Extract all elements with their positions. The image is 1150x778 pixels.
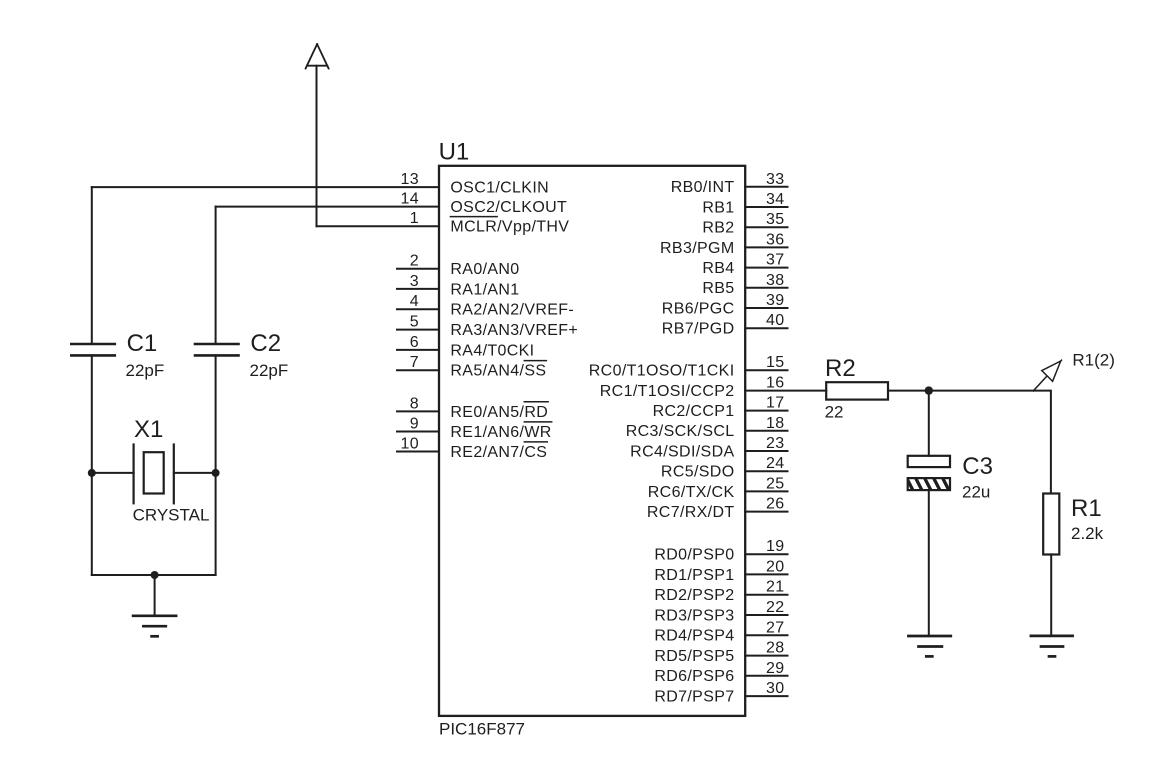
resistor R2: [826, 382, 888, 399]
svg-text:RA2/AN2/VREF-: RA2/AN2/VREF-: [450, 302, 574, 319]
wire: pin 33 stub: [745, 186, 787, 188]
pin name RD6/PSP6: [654, 668, 734, 685]
pin number 38: [766, 272, 785, 289]
wire: pin 23 stub: [745, 450, 787, 452]
svg-text:C3: C3: [962, 453, 993, 480]
pin number 16: [766, 374, 785, 391]
C1 reference label: [127, 330, 158, 357]
svg-text:7: 7: [410, 354, 419, 371]
pin name RB7/PGD: [662, 321, 735, 338]
pin name RA1/AN1: [450, 281, 519, 298]
svg-text:9: 9: [410, 416, 419, 433]
wire: pin 38 stub: [745, 287, 787, 289]
wire: pin 39 stub: [745, 307, 787, 309]
pin name RB0/INT: [671, 179, 735, 196]
wire: crystal left lead: [92, 472, 134, 474]
pin number 25: [766, 475, 785, 492]
pin number 26: [766, 496, 785, 513]
pin number 23: [766, 435, 785, 452]
svg-text:17: 17: [766, 395, 785, 412]
svg-text:OSC2/CLKOUT: OSC2/CLKOUT: [450, 199, 567, 216]
overline over WR of pin 9: [524, 421, 551, 423]
svg-text:RD7/PSP7: RD7/PSP7: [654, 689, 734, 706]
svg-text:4: 4: [410, 293, 419, 310]
pin number 40: [766, 312, 785, 329]
pin name RD2/PSP2: [654, 587, 734, 604]
svg-text:25: 25: [766, 475, 785, 492]
pin number 15: [766, 354, 785, 371]
wire: pin 36 stub: [745, 246, 787, 248]
wire: pin 20 stub: [745, 573, 787, 575]
pin name RA3/AN3/VREF+: [450, 322, 578, 339]
wire: pin 40 stub: [745, 327, 787, 329]
svg-text:RB1: RB1: [702, 199, 734, 216]
wire: pin 2 stub: [397, 268, 439, 270]
wire: C1 lower lead down to crystal loop: [91, 355, 93, 575]
pin number 33: [766, 171, 785, 188]
svg-text:35: 35: [766, 211, 785, 228]
wire: pin 35 stub: [745, 226, 787, 228]
svg-text:26: 26: [766, 496, 785, 513]
svg-text:33: 33: [766, 171, 785, 188]
pin number 17: [766, 395, 785, 412]
svg-text:1: 1: [410, 210, 419, 227]
pin name RA5/AN4/SS: [450, 363, 546, 380]
pin number 37: [766, 252, 785, 269]
node dot: C2 / crystal junction: [212, 469, 220, 477]
node dot: R2 / C3 / R1 junction: [925, 386, 933, 394]
svg-text:PIC16F877: PIC16F877: [439, 720, 525, 739]
capacitor C1 plates: [71, 344, 115, 355]
node label R1(2): [1072, 351, 1115, 370]
pin number 36: [766, 231, 785, 248]
R1 reference label: [1071, 495, 1102, 522]
svg-text:U1: U1: [439, 139, 470, 166]
pin name RD3/PSP3: [654, 607, 734, 624]
pin name RC7/RX/DT: [647, 504, 735, 521]
svg-text:RC0/T1OSO/T1CKI: RC0/T1OSO/T1CKI: [589, 363, 735, 380]
C3 reference label: [962, 453, 993, 480]
ground: R1: [1031, 636, 1073, 657]
pin name RD5/PSP5: [654, 648, 734, 665]
pin name RC2/CCP1: [653, 403, 735, 420]
wire: pin 9 stub: [397, 431, 439, 433]
svg-text:22pF: 22pF: [126, 361, 165, 380]
wire: ground stem of oscillator: [154, 575, 156, 616]
C1 value 22pF: [126, 361, 165, 380]
pin name RB4: [702, 260, 734, 277]
svg-text:RE0/AN5/RD: RE0/AN5/RD: [450, 404, 548, 421]
wire: C2 lower lead down to crystal loop: [215, 355, 217, 575]
svg-text:2: 2: [410, 253, 419, 270]
pin name RA4/T0CKI: [450, 342, 534, 359]
X1 value CRYSTAL: [133, 506, 210, 525]
svg-text:RA4/T0CKI: RA4/T0CKI: [450, 342, 534, 359]
svg-text:21: 21: [766, 579, 785, 596]
svg-text:RC3/SCK/SCL: RC3/SCK/SCL: [626, 423, 735, 440]
svg-text:18: 18: [766, 415, 785, 432]
pin number 13: [401, 171, 420, 188]
X1 reference label: [134, 416, 163, 443]
svg-text:RB2: RB2: [702, 220, 734, 237]
svg-text:RB5: RB5: [702, 280, 734, 297]
pin name RC1/T1OSI/CCP2: [600, 383, 735, 400]
pin name RC5/SDO: [661, 464, 735, 481]
wire: pin 5 stub: [397, 329, 439, 331]
pin number 7: [410, 354, 419, 371]
svg-text:X1: X1: [134, 416, 163, 443]
svg-text:RD2/PSP2: RD2/PSP2: [654, 587, 734, 604]
svg-text:34: 34: [766, 191, 785, 208]
svg-text:RE1/AN6/WR: RE1/AN6/WR: [450, 424, 551, 441]
capacitor C3 (electrolytic): [907, 456, 951, 491]
svg-text:RC5/SDO: RC5/SDO: [661, 464, 735, 481]
wire: C1 upper lead: [91, 187, 93, 344]
svg-text:2.2k: 2.2k: [1071, 524, 1104, 543]
pin name RD7/PSP7: [654, 689, 734, 706]
svg-text:R1(2): R1(2): [1072, 351, 1115, 370]
svg-text:OSC1/CLKIN: OSC1/CLKIN: [450, 180, 549, 197]
pin number 10: [401, 436, 420, 453]
svg-text:MCLR/Vpp/THV: MCLR/Vpp/THV: [450, 219, 569, 236]
svg-text:29: 29: [766, 660, 785, 677]
svg-text:RD6/PSP6: RD6/PSP6: [654, 668, 734, 685]
wire: pin 16 to R2: [745, 390, 826, 392]
svg-text:24: 24: [766, 455, 785, 472]
pin name RB5: [702, 280, 734, 297]
C2 value 22pF: [250, 361, 289, 380]
pin name RB2: [702, 220, 734, 237]
svg-text:RC4/SDI/SDA: RC4/SDI/SDA: [630, 443, 734, 460]
svg-text:22: 22: [766, 599, 785, 616]
svg-text:38: 38: [766, 272, 785, 289]
pin number 39: [766, 292, 785, 309]
pin name RA0/AN0: [450, 261, 519, 278]
svg-text:C1: C1: [127, 330, 158, 357]
svg-text:3: 3: [410, 273, 419, 290]
overline over CS of pin 10: [524, 441, 547, 443]
R2 reference label: [825, 355, 856, 382]
pin name RC3/SCK/SCL: [626, 423, 735, 440]
pin number 4: [410, 293, 419, 310]
pin number 24: [766, 455, 785, 472]
svg-text:8: 8: [410, 395, 419, 412]
wire: OSC1 net, C1 to pin 13: [92, 186, 439, 188]
pin name RE0/AN5/RD: [450, 404, 548, 421]
pin name RB6/PGC: [662, 300, 735, 317]
pin number 6: [410, 334, 419, 351]
svg-text:CRYSTAL: CRYSTAL: [133, 506, 210, 525]
wire: pin 29 stub: [745, 675, 787, 677]
svg-text:RA0/AN0: RA0/AN0: [450, 261, 519, 278]
svg-text:28: 28: [766, 640, 785, 657]
U1 reference label: [439, 139, 470, 166]
pin name RE2/AN7/CS: [450, 444, 547, 461]
wire: C2 upper lead: [215, 207, 217, 344]
svg-text:RD3/PSP3: RD3/PSP3: [654, 607, 734, 624]
node dot: oscillator ground junction: [151, 571, 159, 579]
svg-text:6: 6: [410, 334, 419, 351]
wire: pin 30 stub: [745, 695, 787, 697]
svg-text:RC6/TX/CK: RC6/TX/CK: [648, 484, 735, 501]
svg-text:13: 13: [401, 171, 420, 188]
svg-text:RC1/T1OSI/CCP2: RC1/T1OSI/CCP2: [600, 383, 735, 400]
overline over RD of pin 8: [524, 401, 548, 403]
wire: C3 bottom to ground: [928, 490, 930, 636]
wire: power rail drop to MCLR: [316, 66, 318, 227]
pin name RC0/T1OSO/T1CKI: [589, 363, 735, 380]
wire: pin 8 stub: [397, 410, 439, 412]
ground: C3: [908, 636, 950, 656]
pin name RC6/TX/CK: [648, 484, 735, 501]
wire: pin 6 stub: [397, 349, 439, 351]
pin number 20: [766, 558, 785, 575]
wire: R1 bottom to ground: [1050, 554, 1052, 636]
svg-text:RD5/PSP5: RD5/PSP5: [654, 648, 734, 665]
pin name RD4/PSP4: [654, 628, 734, 645]
pin number 30: [766, 680, 785, 697]
wire: pin 10 stub: [397, 451, 439, 453]
svg-text:RA1/AN1: RA1/AN1: [450, 281, 519, 298]
wire: pin 15 stub: [745, 369, 787, 371]
U1 value label PIC16F877: [439, 720, 525, 739]
wire: pin 37 stub: [745, 267, 787, 269]
svg-text:RC7/RX/DT: RC7/RX/DT: [647, 504, 735, 521]
crystal X1: [134, 445, 174, 504]
svg-text:RB3/PGM: RB3/PGM: [660, 240, 734, 257]
pin name RD1/PSP1: [654, 567, 734, 584]
wire: pin 34 stub: [745, 206, 787, 208]
svg-text:R1: R1: [1071, 495, 1102, 522]
svg-text:5: 5: [410, 314, 419, 331]
pin number 35: [766, 211, 785, 228]
overline over SS of pin 7: [524, 360, 546, 362]
pin number 8: [410, 395, 419, 412]
svg-text:36: 36: [766, 231, 785, 248]
svg-text:22: 22: [825, 402, 844, 421]
IC U1 body: PIC16F877 box: [439, 166, 745, 716]
wire: pin 25 stub: [745, 490, 787, 492]
svg-text:15: 15: [766, 354, 785, 371]
pin number 22: [766, 599, 785, 616]
pin name RA2/AN2/VREF-: [450, 302, 574, 319]
wire: node to C3 top: [928, 391, 930, 456]
svg-text:23: 23: [766, 435, 785, 452]
svg-text:20: 20: [766, 558, 785, 575]
svg-text:30: 30: [766, 680, 785, 697]
pin name RC4/SDI/SDA: [630, 443, 734, 460]
svg-text:10: 10: [401, 436, 420, 453]
node dot: C1 / crystal junction: [88, 469, 96, 477]
svg-text:C2: C2: [250, 330, 281, 357]
svg-text:RB6/PGC: RB6/PGC: [662, 300, 735, 317]
capacitor C2 plates: [195, 344, 239, 355]
pin number 2: [410, 253, 419, 270]
pin name RE1/AN6/WR: [450, 424, 551, 441]
pin number 34: [766, 191, 785, 208]
pin number 19: [766, 538, 785, 555]
pin name OSC1/CLKIN: [450, 180, 549, 197]
svg-text:16: 16: [766, 374, 785, 391]
R1 value 2.2k: [1071, 524, 1104, 543]
wire: pin 7 stub: [397, 369, 439, 371]
svg-text:RD0/PSP0: RD0/PSP0: [654, 547, 734, 564]
C3 value 22u: [962, 483, 990, 502]
wire: pin 17 stub: [745, 410, 787, 412]
wire: R2 to node and R1 branch corner: [888, 391, 1051, 494]
pin name MCLR/Vpp/THV: [450, 219, 569, 236]
svg-text:RA5/AN4/SS: RA5/AN4/SS: [450, 363, 546, 380]
svg-text:RA3/AN3/VREF+: RA3/AN3/VREF+: [450, 322, 578, 339]
R2 value 22: [825, 402, 844, 421]
wire: OSC2 net, C2 to pin 14: [216, 206, 439, 208]
svg-text:22pF: 22pF: [250, 361, 289, 380]
wire: pin 21 stub: [745, 594, 787, 596]
overline over MCLR of pin 1: [450, 216, 497, 218]
wire: pin 24 stub: [745, 470, 787, 472]
svg-text:R2: R2: [825, 355, 856, 382]
wire: pin 4 stub: [397, 308, 439, 310]
svg-text:22u: 22u: [962, 483, 990, 502]
pin name OSC2/CLKOUT: [450, 199, 567, 216]
wire: pin 26 stub: [745, 511, 787, 513]
C2 reference label: [250, 330, 281, 357]
wire: MCLR net, power to pin 1: [317, 225, 440, 227]
wire: pin 3 stub: [397, 288, 439, 290]
svg-text:RB4: RB4: [702, 260, 734, 277]
pin name RB3/PGM: [660, 240, 734, 257]
pin name RB1: [702, 199, 734, 216]
pin number 29: [766, 660, 785, 677]
svg-text:RB7/PGD: RB7/PGD: [662, 321, 735, 338]
svg-text:19: 19: [766, 538, 785, 555]
pin number 28: [766, 640, 785, 657]
svg-text:37: 37: [766, 252, 785, 269]
wire: crystal right lead: [174, 472, 216, 474]
pin number 27: [766, 619, 785, 636]
svg-text:RD4/PSP4: RD4/PSP4: [654, 628, 734, 645]
pin number 5: [410, 314, 419, 331]
pin number 1: [410, 210, 419, 227]
svg-text:RC2/CCP1: RC2/CCP1: [653, 403, 735, 420]
wire: pin 28 stub: [745, 655, 787, 657]
wire: pin 22 stub: [745, 614, 787, 616]
wire: pin 18 stub: [745, 430, 787, 432]
pin number 14: [401, 191, 420, 208]
svg-text:RB0/INT: RB0/INT: [671, 179, 735, 196]
pin name RD0/PSP0: [654, 547, 734, 564]
ground: oscillator: [133, 616, 176, 637]
pin number 21: [766, 579, 785, 596]
wire: pin 27 stub: [745, 634, 787, 636]
svg-text:14: 14: [401, 191, 420, 208]
pin number 18: [766, 415, 785, 432]
resistor R1: [1043, 494, 1059, 555]
svg-text:27: 27: [766, 619, 785, 636]
svg-text:RD1/PSP1: RD1/PSP1: [654, 567, 734, 584]
svg-text:39: 39: [766, 292, 785, 309]
svg-text:RE2/AN7/CS: RE2/AN7/CS: [450, 444, 547, 461]
pin number 9: [410, 416, 419, 433]
wire: bottom of oscillator loop: [92, 574, 216, 576]
wire: pin 19 stub: [745, 553, 787, 555]
power symbol (arrow up): [306, 44, 329, 68]
pin number 3: [410, 273, 419, 290]
net pointer R1(2): [1033, 360, 1061, 391]
svg-text:40: 40: [766, 312, 785, 329]
